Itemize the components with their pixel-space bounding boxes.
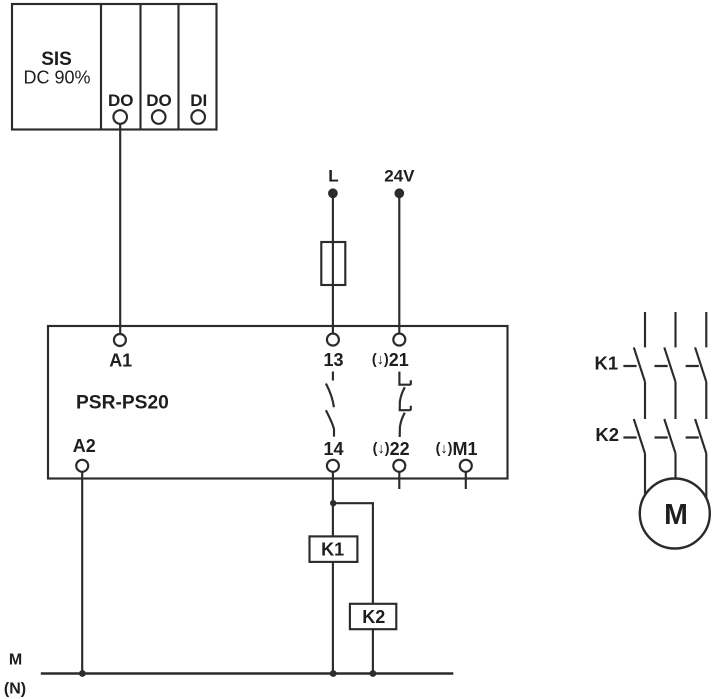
wire phase line 3 middle [705,382,707,419]
terminal 14 [327,460,339,472]
relay coil K1 [310,536,358,562]
node 24V [396,190,404,198]
svg-text:(↓)21: (↓)21 [372,350,409,370]
terminal 13 [327,334,339,346]
svg-text:K2: K2 [362,607,385,627]
svg-text:24V: 24V [384,167,415,186]
wire phase line 2 to motor [674,453,676,478]
wire phase line 1 to motor [644,453,646,494]
svg-text:K2: K2 [595,424,619,445]
relay coil K2 [350,604,396,629]
PLC module SIS DC 90% [12,4,217,130]
svg-text:PSR-PS20: PSR-PS20 [76,392,169,413]
wire 24V to terminal 21 [398,193,400,334]
linkage dashes K1 [623,365,699,367]
junction A2 on M bus [79,670,86,677]
wire L to fuse [332,193,334,242]
terminal A1 [114,334,126,346]
terminal 22 [393,460,405,472]
svg-text:DI: DI [190,91,207,110]
wire phase line 3 to motor [705,453,707,497]
svg-text:14: 14 [323,439,343,459]
wire stub below terminal 22 [398,472,400,489]
svg-text:13: 13 [323,350,343,370]
svg-text:M: M [664,499,688,531]
wire phase line 2 top [674,312,676,347]
contactor contacts K2 (3 poles) [634,419,707,453]
wire branch to coil K2 [333,503,373,604]
svg-text:A1: A1 [109,351,132,371]
fuse F1 [321,242,345,285]
wire phase line 1 top [644,312,646,347]
motor M [640,479,710,549]
junction K2 on M bus [370,670,377,677]
wire coil K1 to M bus [332,562,334,674]
contact 21-22 normally closed forced-guided [399,372,410,437]
wire DO output to A1 [119,124,121,334]
terminal A2 [76,460,88,472]
svg-text:DO: DO [146,91,172,110]
wire phase line 3 top [705,312,707,347]
wire phase line 2 middle [674,382,676,419]
terminal M1 [460,460,472,472]
svg-text:A2: A2 [73,436,96,456]
svg-text:DO: DO [108,91,134,110]
wire phase line 1 middle [644,382,646,419]
contact 13-14 normally open [326,372,334,437]
contactor contacts K1 (3 poles) [634,347,707,381]
pin DO output 2 [152,110,166,124]
svg-text:DC 90%: DC 90% [23,68,90,88]
svg-text:M: M [9,651,22,668]
linkage dashes K2 [623,436,700,438]
svg-text:L: L [328,167,338,186]
svg-text:(↓)22: (↓)22 [373,439,410,459]
svg-text:(↓)M1: (↓)M1 [436,439,478,459]
wire coil K2 to M bus [372,629,374,673]
pin DI input [191,110,205,124]
terminal 21 [393,334,405,346]
wire A2 to M bus [81,472,83,674]
safety relay U1 PSR-PS20 [48,326,508,479]
svg-text:(N): (N) [4,680,26,697]
node L [329,190,337,198]
wire terminal 14 to coil K1 [332,472,334,537]
junction node 14 branch [330,500,336,506]
bus M (N) [41,672,454,674]
wire fuse to terminal 13 [332,285,334,334]
svg-text:K1: K1 [595,352,619,373]
pin DO output 1 [113,110,127,124]
svg-text:K1: K1 [321,540,344,560]
junction K1 on M bus [330,670,337,677]
wire stub below terminal M1 [465,472,467,489]
